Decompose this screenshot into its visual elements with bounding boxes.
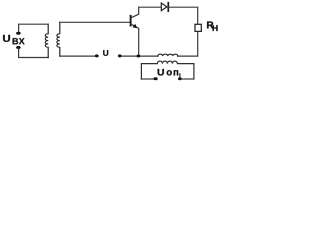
transistor emitter arrow <box>132 24 137 28</box>
wire: reference source bottom right segment <box>182 78 194 80</box>
wire: label pi leg to right reference terminal <box>179 74 181 78</box>
label Uвх input voltage: U <box>3 35 10 42</box>
label Rн subscript Н <box>213 25 218 31</box>
wire: secondary bottom to output terminal <box>60 55 95 57</box>
label Uоп reference: U <box>158 69 164 75</box>
node: output terminal right <box>118 54 122 57</box>
node: input top terminal <box>16 32 21 35</box>
transistor collector lead <box>131 7 139 18</box>
wire: secondary top to transistor base <box>60 21 131 23</box>
label Rн load resistor: R <box>207 22 213 29</box>
wire: diode to resistor corner <box>168 7 197 24</box>
node: input bottom terminal <box>16 46 21 49</box>
wire: reference source bottom left segment <box>141 78 154 80</box>
node: reference terminal right <box>178 77 182 80</box>
wire: resistor bottom down and left to T2 top winding <box>178 31 198 56</box>
diode VD cathode bar <box>167 3 169 12</box>
transformer T2 bottom winding <box>141 61 194 79</box>
diode VD triangle <box>161 3 167 11</box>
wire: output terminal to emitter junction and T2 top winding <box>122 55 158 57</box>
transformer T1 secondary winding <box>57 22 60 56</box>
label U output voltage <box>103 50 108 56</box>
resistor RH body <box>195 24 201 31</box>
node: emitter junction <box>137 55 141 58</box>
label Uоп subscript оп <box>167 70 179 75</box>
transformer T1 primary winding <box>45 24 48 57</box>
wire: input loop top <box>19 24 49 32</box>
transistor emitter lead <box>131 24 139 56</box>
node: reference terminal left <box>154 77 158 80</box>
transistor VT base bar <box>130 16 132 26</box>
wire: input loop bottom <box>19 49 49 58</box>
transformer T2 top winding humps <box>158 54 178 56</box>
node: output terminal left <box>95 54 99 57</box>
wire: collector top rail <box>139 6 162 8</box>
label Uвх subscript ВХ <box>13 38 25 44</box>
